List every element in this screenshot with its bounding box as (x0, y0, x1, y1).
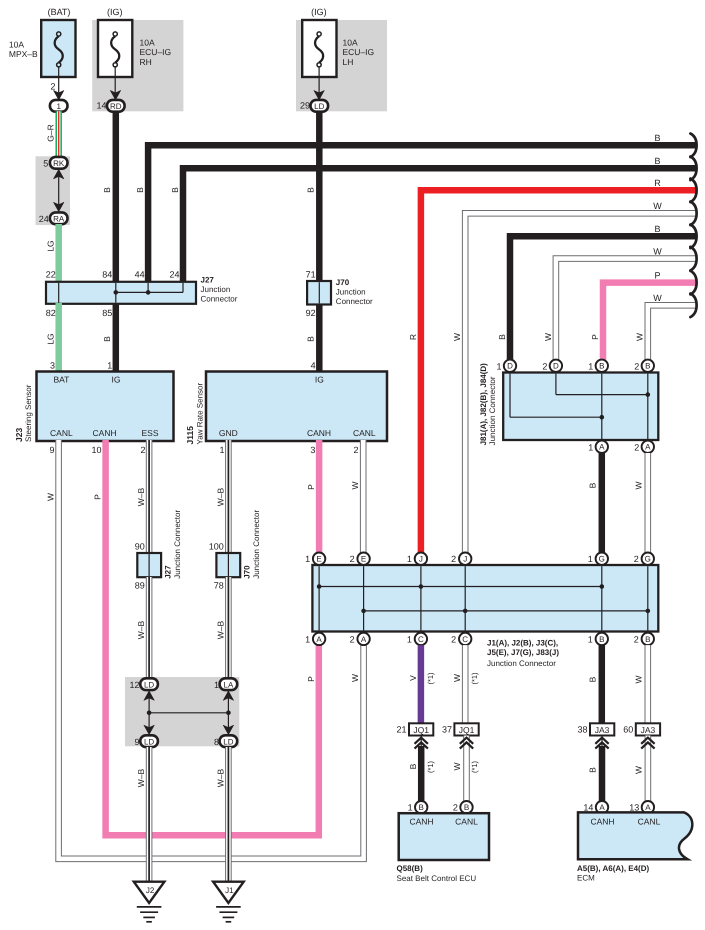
svg-text:ECM: ECM (577, 874, 595, 883)
connector JA3 pin 60 (623, 723, 660, 735)
svg-text:R: R (408, 334, 418, 340)
wire B JQ1-21 to Q58 CANH (408, 736, 435, 802)
svg-text:RH: RH (140, 57, 152, 67)
svg-text:B: B (645, 362, 650, 371)
wire B from LD to J70 (306, 111, 320, 282)
svg-text:W: W (350, 674, 360, 682)
svg-text:LA: LA (224, 680, 234, 689)
wire W feeder 3 (635, 305, 696, 360)
svg-text:G: G (599, 555, 605, 564)
svg-text:1: 1 (56, 102, 61, 111)
svg-text:G–R: G–R (46, 124, 56, 141)
svg-text:29: 29 (300, 101, 310, 111)
svg-text:B: B (599, 635, 604, 644)
svg-text:P: P (590, 334, 600, 340)
pin 2B of Q58 (453, 801, 473, 813)
wire W-B 8LD to ground J1 (215, 747, 228, 881)
wire LG upper (46, 224, 59, 283)
ground J1 (213, 882, 244, 922)
connector oval RA pin 24 (39, 212, 68, 224)
pin 14A of ECM (583, 801, 608, 813)
svg-text:82: 82 (46, 308, 56, 318)
svg-text:RA: RA (53, 214, 65, 223)
wire P CANH loop J23 to J1 1A (91, 440, 318, 835)
pin 13A of ECM (629, 801, 654, 813)
fuse label (IG) LH (311, 7, 327, 17)
svg-text:J27: J27 (164, 565, 173, 579)
svg-text:W: W (634, 675, 644, 683)
svg-text:P: P (654, 271, 660, 281)
svg-text:Seat Belt Control ECU: Seat Belt Control ECU (397, 874, 477, 883)
connector JQ1 pin 21 (396, 723, 433, 735)
fuse 10A ECU-IG RH (98, 20, 171, 77)
svg-text:2: 2 (542, 361, 547, 371)
svg-text:CANL: CANL (353, 428, 376, 438)
wire W-B ESS J23 to J27 (136, 440, 149, 554)
svg-text:100: 100 (209, 542, 224, 552)
svg-text:1: 1 (408, 803, 413, 813)
relay block gray box RH (92, 20, 183, 111)
svg-text:2: 2 (634, 554, 639, 564)
svg-text:9: 9 (134, 737, 139, 747)
wire W J1 2C to JQ1 (452, 645, 479, 724)
svg-text:CANL: CANL (455, 817, 478, 827)
svg-text:P: P (306, 676, 316, 682)
svg-text:B: B (419, 803, 424, 812)
wire W-B J27 to 12LD (136, 577, 149, 678)
splice internal links (144, 691, 234, 735)
wire B JA3-38 to ECM CANH (588, 736, 602, 802)
svg-text:W: W (543, 333, 553, 341)
pin 1J of J1 (407, 553, 427, 565)
fuse label (IG) RH (107, 7, 123, 17)
connector oval LD (311, 100, 329, 112)
svg-text:2: 2 (353, 445, 358, 455)
wire W J1 2B to JA3 (634, 645, 648, 724)
svg-text:LD: LD (223, 737, 233, 746)
wire W-B GND J115 to J70 (215, 440, 228, 554)
svg-text:JA3: JA3 (595, 725, 610, 735)
svg-text:1: 1 (496, 361, 501, 371)
fuse 10A ECU-IG LH (302, 20, 374, 77)
pin 1A of J81 (588, 441, 608, 453)
svg-text:1: 1 (219, 445, 224, 455)
svg-text:85: 85 (102, 308, 112, 318)
svg-text:GND: GND (219, 428, 238, 438)
pin 1B of J81 (588, 360, 608, 372)
svg-text:3: 3 (50, 360, 55, 370)
svg-text:B: B (306, 187, 316, 193)
svg-text:MPX–B: MPX–B (9, 49, 38, 59)
wire G-R (46, 111, 59, 157)
svg-text:B: B (645, 635, 650, 644)
svg-text:(*1): (*1) (470, 760, 479, 773)
svg-text:J115: J115 (185, 426, 195, 445)
svg-text:1: 1 (107, 360, 112, 370)
svg-text:J1: J1 (225, 886, 234, 895)
svg-text:B: B (588, 676, 598, 682)
svg-text:Junction Connector: Junction Connector (252, 510, 261, 579)
svg-text:2: 2 (634, 361, 639, 371)
svg-text:P: P (93, 494, 103, 500)
svg-text:LH: LH (343, 57, 354, 67)
wire W JQ1-37 to Q58 CANL (452, 736, 479, 802)
svg-text:38: 38 (577, 725, 587, 735)
svg-text:2: 2 (350, 554, 355, 564)
svg-text:E: E (361, 555, 366, 564)
svg-text:LG: LG (46, 333, 56, 344)
svg-text:BAT: BAT (53, 375, 69, 385)
wire B J27 to J23 IG (102, 303, 116, 372)
svg-text:J: J (463, 555, 467, 564)
svg-text:3: 3 (310, 445, 315, 455)
pin 1A of J1 (305, 633, 325, 645)
svg-text:D: D (553, 362, 559, 371)
svg-text:24: 24 (39, 214, 49, 224)
svg-text:W–B: W–B (136, 487, 146, 506)
svg-text:J70: J70 (243, 565, 252, 579)
svg-text:1: 1 (214, 680, 219, 690)
svg-text:W: W (634, 481, 644, 489)
svg-text:1: 1 (305, 554, 310, 564)
pin 1E of J1 (305, 553, 325, 565)
svg-text:Connector: Connector (201, 294, 238, 303)
svg-text:W–B: W–B (215, 487, 225, 506)
svg-text:1: 1 (588, 554, 593, 564)
svg-text:90: 90 (135, 542, 145, 552)
svg-text:1: 1 (588, 361, 593, 371)
svg-text:A5(B), A6(A), E4(D): A5(B), A6(A), E4(D) (577, 864, 649, 873)
svg-text:92: 92 (306, 308, 316, 318)
svg-text:D: D (507, 362, 513, 371)
pin 2B of J81 (634, 360, 654, 372)
svg-text:Steering Sensor: Steering Sensor (24, 384, 33, 442)
svg-text:JQ1: JQ1 (413, 725, 429, 735)
svg-text:(IG): (IG) (311, 7, 327, 17)
svg-text:Yaw Rate Sensor: Yaw Rate Sensor (196, 383, 205, 445)
wire B feeder 2 (170, 168, 696, 283)
wire fuse ECU-IG LH output pin 29 (300, 77, 324, 111)
svg-text:10A: 10A (140, 38, 155, 48)
svg-text:1: 1 (588, 442, 593, 452)
pin 2A of J81 (634, 441, 654, 453)
svg-text:LD: LD (144, 680, 154, 689)
svg-text:CANH: CANH (307, 428, 331, 438)
wire R feeder (408, 190, 696, 552)
svg-text:21: 21 (396, 725, 406, 735)
svg-text:J27: J27 (201, 275, 215, 284)
svg-text:W: W (452, 333, 462, 341)
svg-text:V: V (408, 675, 418, 681)
pin 2A of J1 (350, 633, 370, 645)
svg-text:12: 12 (129, 680, 139, 690)
svg-text:W–B: W–B (215, 768, 225, 787)
wire W feeder 1 (452, 213, 696, 552)
pin 2B of J1 (634, 633, 654, 645)
svg-text:J5(E), J7(G), J83(J): J5(E), J7(G), J83(J) (487, 648, 559, 657)
svg-text:B: B (408, 763, 418, 769)
svg-text:44: 44 (135, 270, 145, 280)
svg-text:(*1): (*1) (426, 672, 435, 685)
svg-text:84: 84 (102, 270, 112, 280)
wire fuse MPX-B output pin 2 (50, 77, 64, 100)
shield chevrons JQ1-21 (415, 738, 428, 749)
wire B from RD to J27 (102, 111, 116, 283)
label P below J1 1A (306, 676, 316, 682)
pin 2E of J1 (350, 553, 370, 565)
splice gray box (125, 677, 239, 746)
svg-text:1: 1 (407, 554, 412, 564)
svg-text:W: W (452, 762, 462, 770)
block J115 Yaw Rate Sensor (185, 372, 387, 445)
svg-text:CANL: CANL (50, 428, 73, 438)
svg-text:LD: LD (144, 737, 154, 746)
svg-text:10A: 10A (9, 40, 24, 50)
junction connector J27 (46, 270, 238, 318)
svg-text:W–B: W–B (215, 620, 225, 639)
svg-text:W–B: W–B (136, 768, 146, 787)
pin 2C of J1 (451, 633, 471, 645)
svg-text:1: 1 (305, 634, 310, 644)
shield chevrons JA3-38 (595, 738, 608, 749)
svg-text:78: 78 (214, 580, 224, 590)
svg-text:A: A (599, 443, 605, 452)
fuse 10A MPX-B (9, 20, 76, 77)
svg-text:A: A (361, 635, 367, 644)
svg-text:CANH: CANH (590, 817, 614, 827)
svg-text:Connector: Connector (336, 297, 373, 306)
svg-text:2: 2 (451, 554, 456, 564)
pin 1D of J81 (496, 360, 516, 372)
svg-text:B: B (102, 336, 112, 342)
block ECM (577, 812, 692, 882)
pin 1B of J1 (588, 633, 608, 645)
pin 2D of J81 (542, 360, 562, 372)
svg-text:E: E (316, 555, 321, 564)
pin 1G of J1 (588, 553, 608, 565)
wire W CANL J115 to J1 2E (350, 440, 363, 553)
svg-text:IG: IG (315, 375, 324, 385)
junction connector J81 J82 J84 box (479, 363, 658, 446)
svg-text:J70: J70 (336, 278, 350, 287)
pin 2J of J1 (451, 553, 471, 565)
feeder edge labels (653, 133, 662, 303)
svg-text:JQ1: JQ1 (459, 725, 475, 735)
svg-text:JA3: JA3 (641, 725, 656, 735)
svg-text:Q58(B): Q58(B) (397, 864, 424, 873)
svg-text:5: 5 (43, 158, 48, 168)
wire W-B 9LD to ground J2 (136, 747, 149, 881)
wire fuse ECU-IG RH output pin 14 (96, 77, 120, 111)
svg-text:B: B (654, 133, 660, 143)
svg-text:2: 2 (140, 445, 145, 455)
block Q58 Seat Belt Control ECU (397, 813, 490, 883)
connector oval RD (107, 100, 125, 112)
wire B J81 to J1 1G (588, 453, 602, 553)
junction connector J70 (306, 270, 373, 318)
svg-text:B: B (135, 187, 145, 193)
shield chevrons JA3-60 (641, 738, 654, 749)
pin 1C of J1 (407, 633, 427, 645)
block J23 Steering Sensor (14, 372, 174, 443)
svg-text:(IG): (IG) (107, 7, 123, 17)
wire B J70 to J115 IG (306, 304, 320, 373)
svg-text:J2: J2 (146, 886, 155, 895)
wire W-B J70 to 1LA (215, 577, 228, 678)
feeder continuation squiggles (690, 134, 696, 318)
wire P feeder (590, 283, 696, 360)
svg-text:CANH: CANH (409, 817, 433, 827)
svg-text:B: B (588, 482, 598, 488)
svg-text:W: W (452, 674, 462, 682)
svg-text:37: 37 (442, 725, 452, 735)
svg-text:4: 4 (311, 360, 316, 370)
connector oval 9 LD (134, 735, 157, 747)
svg-text:71: 71 (306, 270, 316, 280)
svg-text:10A: 10A (343, 38, 358, 48)
svg-text:ECU–IG: ECU–IG (140, 47, 172, 57)
svg-text:B: B (654, 156, 660, 166)
connector oval 1 (50, 100, 68, 112)
svg-text:B: B (599, 362, 604, 371)
wire W feeder 2 (543, 259, 696, 360)
junction connector J1 block (312, 565, 658, 668)
connector oval 12 LD (129, 678, 157, 690)
svg-text:W: W (350, 481, 360, 489)
svg-text:W: W (653, 293, 662, 303)
shield chevrons JQ1-37 (460, 738, 473, 749)
wire P CANH J115 to J1 1E (306, 440, 319, 553)
connector oval 8 LD (214, 735, 237, 747)
svg-text:B: B (497, 334, 507, 340)
svg-text:J23: J23 (14, 428, 24, 442)
fuse label (BAT) (48, 7, 71, 17)
pin 2G of J1 (634, 553, 654, 565)
svg-text:22: 22 (46, 270, 56, 280)
svg-text:1: 1 (407, 634, 412, 644)
svg-text:14: 14 (96, 101, 106, 111)
svg-text:1: 1 (588, 634, 593, 644)
svg-text:2: 2 (451, 634, 456, 644)
wire LG lower (46, 303, 59, 372)
connector gray box RK-RA (36, 156, 71, 225)
svg-text:C: C (418, 635, 424, 644)
svg-text:(*1): (*1) (470, 672, 479, 685)
svg-text:W: W (653, 247, 662, 257)
svg-text:2: 2 (453, 803, 458, 813)
svg-text:Junction Connector: Junction Connector (488, 376, 497, 445)
svg-text:W: W (635, 333, 645, 341)
svg-text:R: R (654, 178, 661, 188)
wire RK to RA (53, 169, 64, 212)
svg-text:J1(A), J2(B), J3(C),: J1(A), J2(B), J3(C), (487, 638, 558, 647)
svg-text:RK: RK (53, 159, 65, 168)
connector oval RK pin 5 (43, 157, 67, 169)
wire W CANL loop J23 to J1 2A (46, 440, 364, 859)
svg-text:W: W (46, 493, 56, 501)
svg-text:2: 2 (634, 634, 639, 644)
connector oval 1 LA (214, 678, 237, 690)
label W below J1 2A (350, 674, 360, 682)
svg-text:24: 24 (169, 270, 179, 280)
svg-text:W–B: W–B (136, 620, 146, 639)
svg-text:Junction: Junction (336, 288, 366, 297)
svg-text:J: J (419, 555, 423, 564)
svg-text:G: G (645, 555, 651, 564)
svg-text:A: A (645, 443, 651, 452)
svg-text:LG: LG (46, 240, 56, 251)
svg-text:CANH: CANH (93, 428, 117, 438)
svg-text:A: A (599, 803, 605, 812)
connector JQ1 pin 37 (442, 723, 479, 735)
svg-text:B: B (588, 767, 598, 773)
svg-text:B: B (170, 187, 180, 193)
svg-text:89: 89 (135, 580, 145, 590)
svg-text:Junction Connector: Junction Connector (487, 659, 556, 668)
svg-text:(*1): (*1) (426, 760, 435, 773)
svg-text:10: 10 (91, 445, 101, 455)
svg-text:LD: LD (314, 102, 324, 111)
svg-text:A: A (645, 803, 651, 812)
wire B J1 1B to JA3 (588, 645, 602, 724)
pin 1B of Q58 (408, 801, 428, 813)
ground J2 (134, 882, 165, 922)
svg-text:B: B (464, 803, 469, 812)
svg-text:P: P (306, 484, 316, 490)
wire W J81 to J1 2G (634, 453, 648, 553)
svg-text:60: 60 (623, 725, 633, 735)
svg-text:2: 2 (350, 634, 355, 644)
wire W JA3-60 to ECM CANL (634, 736, 648, 802)
svg-text:(BAT): (BAT) (48, 7, 71, 17)
junction connector J27 lower (135, 510, 182, 591)
svg-text:C: C (462, 635, 468, 644)
svg-text:Junction Connector: Junction Connector (173, 510, 182, 579)
svg-text:CANL: CANL (638, 817, 661, 827)
svg-text:A: A (316, 635, 322, 644)
junction connector J70 lower (209, 510, 261, 591)
svg-text:B: B (102, 187, 112, 193)
svg-text:B: B (654, 224, 660, 234)
wire V J1 1C to JQ1 (408, 645, 435, 724)
svg-text:2: 2 (634, 442, 639, 452)
svg-text:9: 9 (49, 445, 54, 455)
svg-text:IG: IG (112, 375, 121, 385)
svg-text:RD: RD (110, 102, 122, 111)
svg-text:ECU–IG: ECU–IG (343, 47, 375, 57)
wire B feeder 3 (497, 236, 696, 359)
connector JA3 pin 38 (577, 723, 614, 735)
relay block gray box LH (296, 20, 387, 111)
svg-text:ESS: ESS (141, 428, 158, 438)
svg-text:W: W (634, 766, 644, 774)
svg-text:B: B (306, 336, 316, 342)
svg-text:Junction: Junction (201, 285, 231, 294)
svg-text:8: 8 (214, 737, 219, 747)
wire B feeder 1 (135, 145, 696, 283)
svg-text:W: W (653, 201, 662, 211)
